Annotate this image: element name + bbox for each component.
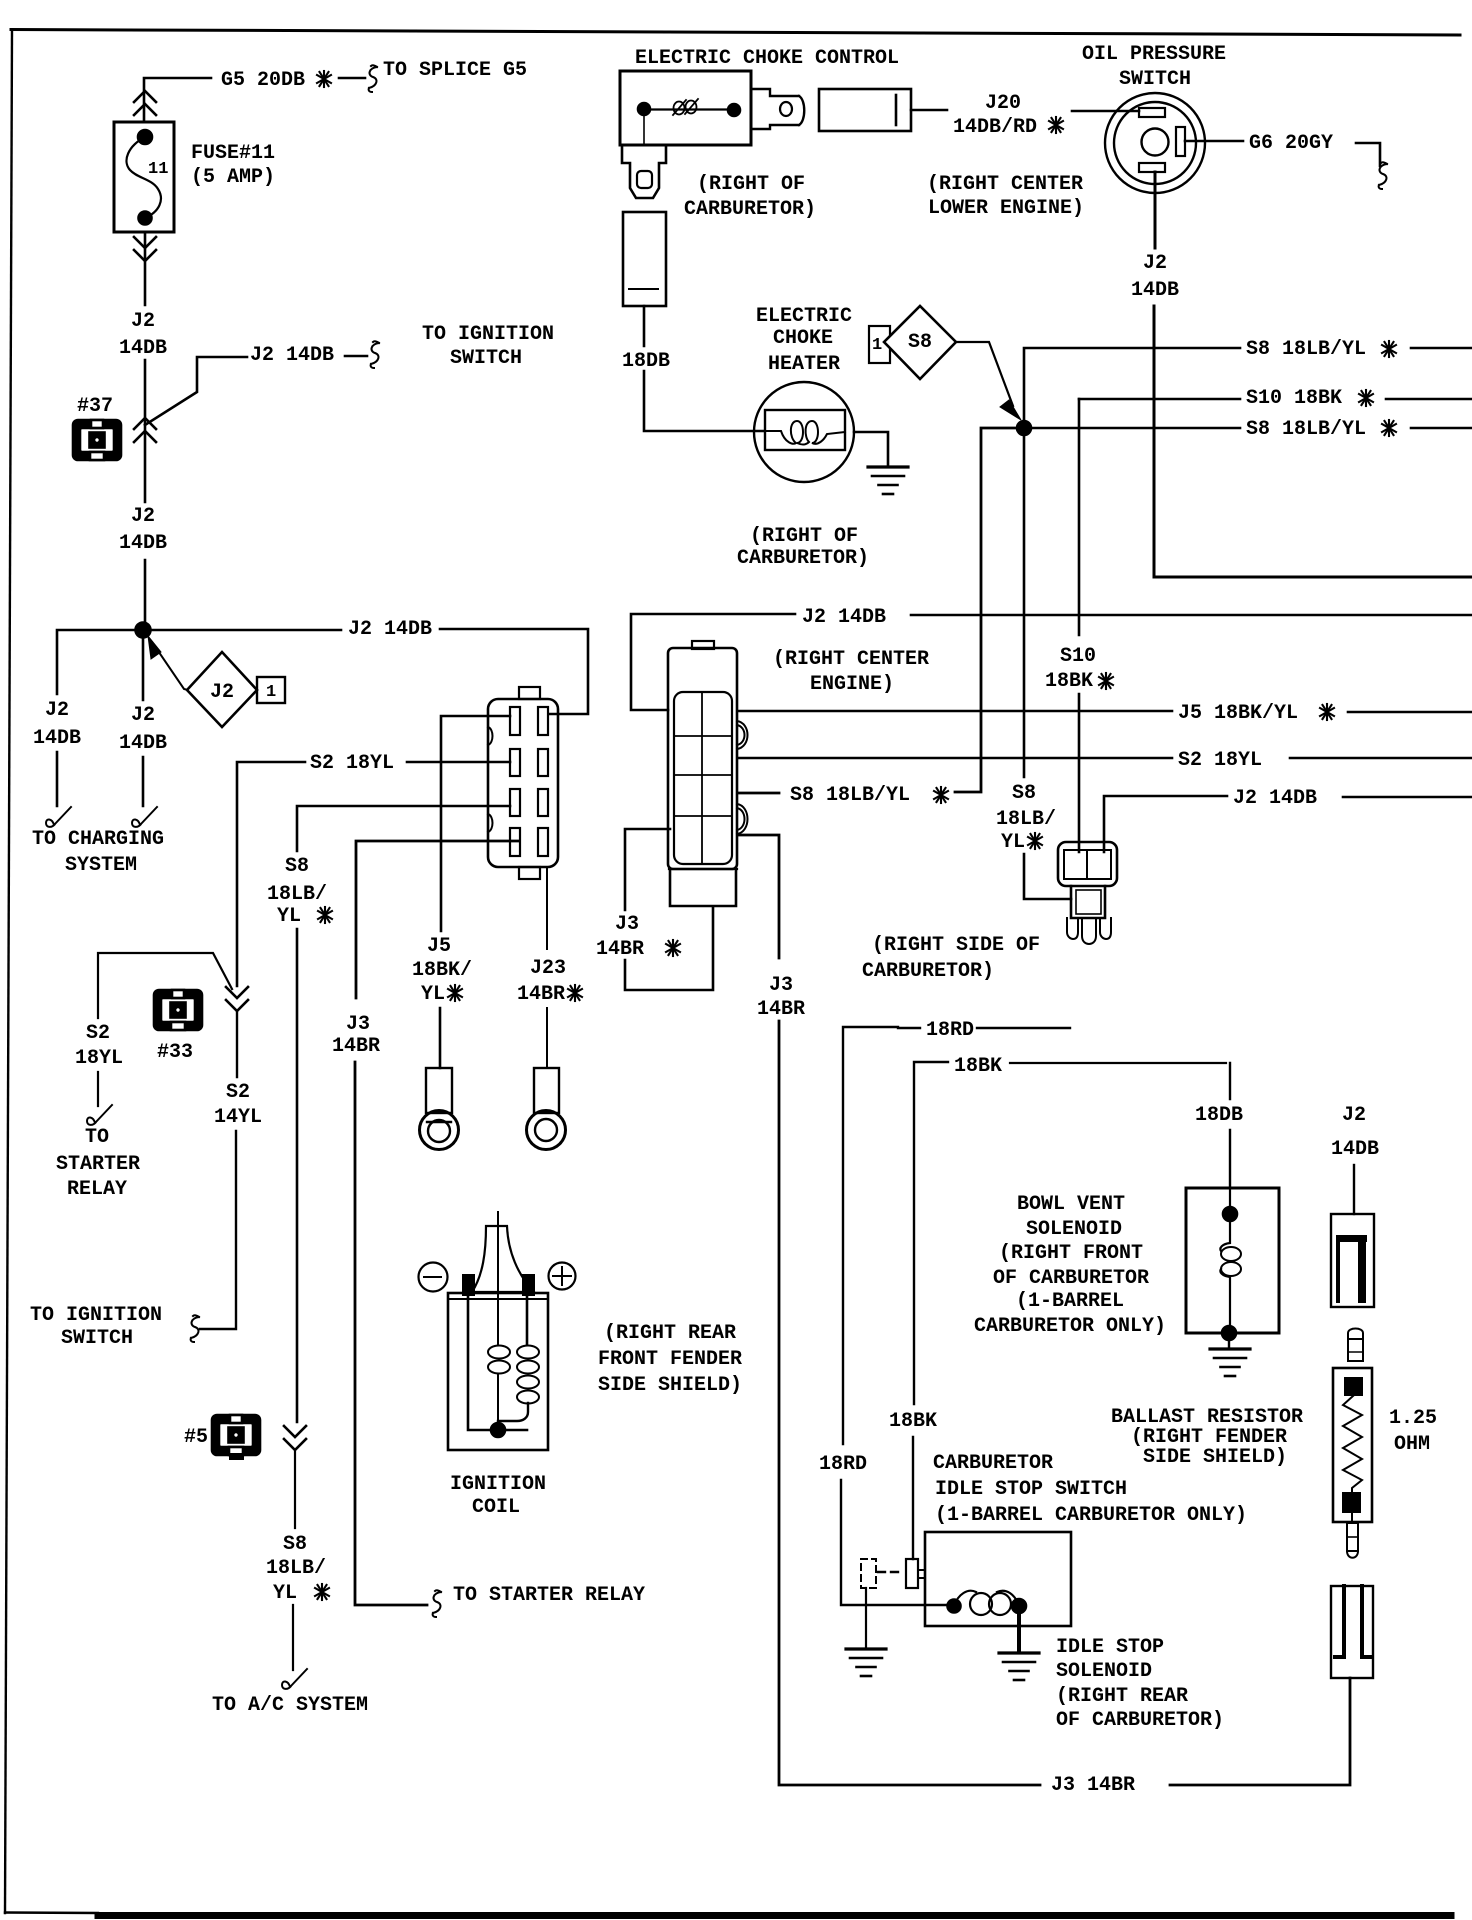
border frame top bbox=[11, 30, 1460, 36]
ground from idle stop solenoid bbox=[1017, 1606, 1021, 1652]
svg-text:(RIGHT OF: (RIGHT OF bbox=[750, 525, 858, 548]
svg-text:YL: YL bbox=[1001, 831, 1025, 854]
svg-text:#37: #37 bbox=[77, 395, 113, 418]
choke control lower connector shell bbox=[623, 212, 666, 306]
connector C bowl vent prongs bbox=[1067, 918, 1078, 939]
svg-text:1: 1 bbox=[872, 336, 882, 355]
wire label S8 18LB/YL lower bbox=[266, 1533, 326, 1605]
svg-text:(RIGHT FRONT: (RIGHT FRONT bbox=[999, 1242, 1143, 1265]
svg-text:RELAY: RELAY bbox=[67, 1178, 127, 1201]
svg-text:1.25: 1.25 bbox=[1389, 1407, 1437, 1430]
wire label J2 14DB right column bbox=[1331, 1104, 1379, 1161]
wire label J3 14BR loop bbox=[596, 913, 644, 961]
svg-text:18RD: 18RD bbox=[819, 1453, 867, 1476]
ground from dashed connector bbox=[865, 1588, 867, 1648]
svg-text:J2 14DB: J2 14DB bbox=[1233, 787, 1317, 810]
svg-text:S10: S10 bbox=[1060, 645, 1096, 668]
svg-text:14BR: 14BR bbox=[757, 998, 805, 1021]
wire break to ignition switch lower bbox=[191, 1315, 199, 1342]
svg-text:14DB: 14DB bbox=[33, 727, 81, 750]
svg-text:18BK: 18BK bbox=[1045, 670, 1093, 693]
svg-text:SOLENOID: SOLENOID bbox=[1056, 1660, 1152, 1683]
svg-text:S8: S8 bbox=[908, 331, 932, 354]
svg-text:J3 14BR: J3 14BR bbox=[1051, 1774, 1135, 1797]
svg-text:TO: TO bbox=[85, 1126, 109, 1149]
svg-text:ELECTRIC: ELECTRIC bbox=[756, 305, 852, 328]
svg-text:(5 AMP): (5 AMP) bbox=[191, 166, 275, 189]
chevron pair down on S8 wire at #5 bbox=[284, 1426, 306, 1450]
svg-text:14BR: 14BR bbox=[332, 1035, 380, 1058]
svg-text:18YL: 18YL bbox=[75, 1047, 123, 1070]
wire label J2 14DB run bbox=[348, 618, 432, 641]
wire G5 20DB from fuse top bbox=[144, 78, 365, 122]
svg-text:CARBURETOR): CARBURETOR) bbox=[737, 547, 869, 570]
wire S8 vertical mid column bbox=[1024, 435, 1071, 899]
electric choke heater circle bbox=[754, 382, 854, 482]
svg-text:CARBURETOR): CARBURETOR) bbox=[862, 960, 994, 983]
splice arrow into junction bbox=[152, 642, 188, 690]
svg-text:14DB: 14DB bbox=[1331, 1138, 1379, 1161]
wire S2 14YL down to ignition switch bbox=[200, 1011, 237, 1329]
ballast terminal bulb bbox=[1348, 1329, 1363, 1340]
svg-text:18BK/: 18BK/ bbox=[412, 959, 472, 982]
connector C bowl vent 2-way upper shell bbox=[1058, 842, 1117, 886]
svg-text:S2: S2 bbox=[226, 1081, 250, 1104]
svg-text:J3: J3 bbox=[615, 913, 639, 936]
wire 18RD bbox=[841, 1027, 1070, 1605]
svg-text:J2: J2 bbox=[1342, 1104, 1366, 1127]
svg-text:TO A/C SYSTEM: TO A/C SYSTEM bbox=[212, 1694, 368, 1717]
wire label J2 14DB branch bbox=[250, 344, 334, 367]
wire pin R4 J23 column bbox=[546, 867, 548, 1068]
wire J2 14DB left branch to charging system bbox=[57, 630, 143, 806]
wire J3 14BR right column bbox=[738, 835, 1350, 1785]
wire S10 vertical bbox=[1078, 399, 1081, 852]
connector #33 label bbox=[157, 1041, 193, 1064]
wire label J2 14DB middle bbox=[119, 704, 167, 755]
svg-text:COIL: COIL bbox=[472, 1496, 520, 1519]
wire pin L2 S2 18YL bbox=[237, 762, 510, 986]
svg-text:18DB: 18DB bbox=[1195, 1104, 1243, 1127]
svg-text:S8 18LB/YL: S8 18LB/YL bbox=[1246, 418, 1366, 441]
component label FUSE#11 (5 AMP) bbox=[191, 142, 275, 189]
oil pressure switch terminals bbox=[1139, 108, 1165, 117]
bowl vent solenoid box bbox=[1186, 1188, 1279, 1333]
wire label J3 14BR bottom run bbox=[1051, 1774, 1135, 1797]
bowl vent solenoid coil bbox=[1220, 1188, 1230, 1327]
location label RIGHT SIDE OF CARBURETOR bbox=[862, 934, 1040, 983]
wire label 18RD lower bbox=[819, 1453, 867, 1476]
node label TO CHARGING SYSTEM bbox=[32, 828, 164, 877]
border frame left bbox=[5, 30, 12, 1914]
svg-text:J2: J2 bbox=[131, 505, 155, 528]
svg-text:(1-BARREL CARBURETOR ONLY): (1-BARREL CARBURETOR ONLY) bbox=[935, 1504, 1247, 1527]
svg-text:OF CARBURETOR: OF CARBURETOR bbox=[993, 1267, 1149, 1290]
svg-text:TO STARTER RELAY: TO STARTER RELAY bbox=[453, 1584, 645, 1607]
svg-text:ENGINE): ENGINE) bbox=[810, 673, 894, 696]
idle stop switch box bbox=[925, 1532, 1071, 1626]
svg-text:(1-BARREL: (1-BARREL bbox=[1016, 1290, 1124, 1313]
svg-text:J2: J2 bbox=[45, 699, 69, 722]
ignition coil positive terminal bbox=[522, 1274, 535, 1296]
wire J2 14DB fuse to junction bbox=[144, 232, 147, 623]
ignition coil plus mark bbox=[549, 1263, 576, 1290]
wire label 18DB bbox=[622, 350, 670, 373]
wire J5 18BK/YL row bbox=[738, 711, 1472, 712]
wire branch to ignition switch bbox=[145, 356, 367, 425]
svg-text:FRONT FENDER: FRONT FENDER bbox=[598, 1348, 742, 1371]
connector C ballast lower half bbox=[1331, 1586, 1373, 1678]
fuse F11 body bbox=[114, 122, 174, 232]
svg-text:ELECTRIC CHOKE CONTROL: ELECTRIC CHOKE CONTROL bbox=[635, 47, 899, 70]
wire label J2 14DB lower bbox=[119, 505, 167, 555]
idle stop solenoid coil bbox=[948, 1600, 961, 1613]
ballast resistor body bbox=[1333, 1368, 1372, 1522]
connector #33 symbol bbox=[154, 990, 202, 1030]
component label ELECTRIC CHOKE HEATER bbox=[756, 305, 852, 376]
wire label S2 18YL bbox=[310, 752, 394, 775]
connector C carb 8-way body bbox=[488, 699, 558, 867]
svg-text:18DB: 18DB bbox=[622, 350, 670, 373]
svg-text:J2 14DB: J2 14DB bbox=[250, 344, 334, 367]
heater coil bbox=[765, 421, 845, 445]
svg-text:SOLENOID: SOLENOID bbox=[1026, 1218, 1122, 1241]
connector C engine inner cavity grid bbox=[674, 692, 732, 864]
svg-text:18LB/: 18LB/ bbox=[266, 1557, 326, 1580]
wire label 18RD upper bbox=[926, 1019, 974, 1042]
wire label J2 14DB upper bbox=[119, 310, 167, 360]
ignition coil HT center lead bbox=[497, 1212, 499, 1424]
wire pin L4 J3 column bbox=[355, 841, 519, 1605]
ground at choke heater bbox=[868, 467, 908, 494]
wire label G6 20GY bbox=[1249, 132, 1333, 155]
svg-text:J2: J2 bbox=[210, 681, 234, 704]
fuse F11 element bbox=[126, 137, 160, 218]
splice diamond S8 bbox=[884, 306, 956, 379]
svg-text:S8 18LB/YL: S8 18LB/YL bbox=[790, 784, 910, 807]
connector C carb pin slots bbox=[510, 707, 548, 856]
svg-text:CHOKE: CHOKE bbox=[773, 327, 833, 350]
svg-text:TO IGNITION: TO IGNITION bbox=[422, 323, 554, 346]
wire 18BK bbox=[913, 1062, 948, 1559]
chevron pair down on S2 wire bbox=[226, 987, 248, 1011]
location label RIGHT CENTER LOWER ENGINE bbox=[927, 173, 1084, 220]
svg-text:STARTER: STARTER bbox=[56, 1153, 140, 1176]
connector #5 symbol bbox=[212, 1415, 260, 1455]
node label TO STARTER RELAY bbox=[56, 1126, 140, 1201]
svg-text:IGNITION: IGNITION bbox=[450, 1473, 546, 1496]
wire label S8 18LB/YL at connector bbox=[790, 784, 910, 807]
node label TO A/C SYSTEM bbox=[212, 1694, 368, 1717]
svg-text:J2: J2 bbox=[1143, 252, 1167, 275]
fuse value label 11 bbox=[148, 160, 168, 179]
svg-text:S2 18YL: S2 18YL bbox=[1178, 749, 1262, 772]
dashed mating connector bbox=[861, 1559, 876, 1588]
wire label 18DB bbox=[1195, 1104, 1243, 1127]
ignition coil minus mark bbox=[419, 1263, 448, 1292]
wire J2 14DB long horizontal run bbox=[631, 614, 1472, 710]
connector C bowl vent neck bbox=[1071, 886, 1105, 918]
wire S8 18LB/YL upper row bbox=[1024, 348, 1472, 421]
svg-text:SWITCH: SWITCH bbox=[450, 347, 522, 370]
connector #37 symbol bbox=[73, 420, 121, 460]
choke control internal contacts bbox=[650, 108, 728, 110]
connector C ballast upper half bbox=[1331, 1214, 1374, 1307]
wire label 18BK upper bbox=[954, 1055, 1002, 1078]
wire 18DB from choke connector bbox=[644, 306, 764, 431]
location label RIGHT REAR FRONT FENDER SIDE SHIELD bbox=[598, 1322, 742, 1397]
wire label J3 14BR right column bbox=[757, 974, 805, 1021]
ground at bowl vent solenoid bbox=[1228, 1340, 1230, 1348]
svg-text:J23: J23 bbox=[530, 957, 566, 980]
svg-text:14BR: 14BR bbox=[596, 938, 644, 961]
wire S2 18YL row bbox=[738, 757, 1472, 760]
svg-text:(RIGHT CENTER: (RIGHT CENTER bbox=[927, 173, 1083, 196]
wire label 18BK lower bbox=[889, 1410, 937, 1433]
wire label J2 14DB oil switch bbox=[1131, 252, 1179, 302]
wire heater to ground bbox=[854, 432, 888, 466]
svg-text:YL: YL bbox=[421, 983, 445, 1006]
ignition coil tower bbox=[472, 1226, 534, 1292]
connector #5 label bbox=[184, 1426, 208, 1449]
svg-text:BOWL VENT: BOWL VENT bbox=[1017, 1193, 1125, 1216]
wire break to starter relay right bbox=[433, 1590, 441, 1617]
svg-text:FUSE#11: FUSE#11 bbox=[191, 142, 275, 165]
svg-text:J2 14DB: J2 14DB bbox=[348, 618, 432, 641]
idle stop switch terminal bbox=[906, 1559, 918, 1588]
svg-text:CARBURETOR ONLY): CARBURETOR ONLY) bbox=[974, 1315, 1166, 1338]
svg-text:J2: J2 bbox=[131, 310, 155, 333]
svg-text:S2: S2 bbox=[86, 1022, 110, 1045]
svg-text:OHM: OHM bbox=[1394, 1433, 1430, 1456]
component label OIL PRESSURE SWITCH bbox=[1082, 43, 1226, 91]
wire S8 18LB/YL lower row bbox=[1031, 427, 1472, 430]
wire G6 20GY bbox=[1185, 141, 1380, 166]
wire label S2 18YL branch bbox=[75, 1022, 123, 1070]
ballast resistor element zigzag bbox=[1343, 1396, 1362, 1492]
svg-text:(RIGHT SIDE OF: (RIGHT SIDE OF bbox=[872, 934, 1040, 957]
wire S8 branch left of junction down to connector bbox=[738, 428, 1017, 793]
svg-text:J3: J3 bbox=[346, 1013, 370, 1036]
wire label J23 14BR bbox=[517, 957, 566, 1006]
svg-text:SIDE SHIELD): SIDE SHIELD) bbox=[598, 1374, 742, 1397]
oil pressure switch body circles bbox=[1105, 93, 1205, 193]
arrow to charging system left bbox=[46, 807, 71, 827]
splice asterisk for G5 bbox=[317, 71, 331, 87]
splice S8 index box 1 bbox=[869, 326, 890, 363]
node label TO SPLICE G5 bbox=[383, 59, 527, 82]
svg-text:(RIGHT CENTER: (RIGHT CENTER bbox=[773, 648, 929, 671]
wire break to splice G5 bbox=[369, 65, 377, 92]
wire S10 18BK row bbox=[1079, 398, 1472, 401]
svg-text:J20: J20 bbox=[985, 92, 1021, 115]
wire label S2 14YL bbox=[214, 1081, 262, 1129]
location label RIGHT CENTER ENGINE bbox=[773, 648, 929, 696]
svg-text:TO CHARGING: TO CHARGING bbox=[32, 828, 164, 851]
component label BALLAST RESISTOR bbox=[1111, 1406, 1303, 1469]
svg-text:18BK: 18BK bbox=[889, 1410, 937, 1433]
node label TO IGNITION SWITCH lower bbox=[30, 1304, 162, 1350]
choke control lower lug terminal bbox=[622, 145, 666, 198]
wire pin L1 to J5 column bbox=[440, 716, 510, 1068]
svg-text:CARBURETOR: CARBURETOR bbox=[933, 1452, 1053, 1475]
svg-text:14DB: 14DB bbox=[119, 732, 167, 755]
wire break G6 bbox=[1379, 162, 1387, 189]
node label G5 20DB bbox=[221, 69, 305, 92]
svg-text:(RIGHT REAR: (RIGHT REAR bbox=[604, 1322, 736, 1345]
wire S8 18LB/YL to A/C system bbox=[293, 1450, 295, 1670]
wire label J20 14DB/RD bbox=[953, 92, 1037, 139]
ring terminal J5 bbox=[426, 1068, 452, 1113]
wire S2 18YL branch to starter relay bbox=[98, 953, 232, 1106]
wire J3 loop connector bottom bbox=[625, 829, 713, 990]
wire J2 14DB stub to connector bbox=[1353, 1165, 1355, 1214]
svg-text:S8: S8 bbox=[283, 1533, 307, 1556]
svg-text:18LB/: 18LB/ bbox=[996, 808, 1056, 831]
wire J2 14DB right run to connector bbox=[151, 629, 588, 714]
wire label S8 18LB/YL upper left column bbox=[267, 855, 327, 928]
junction dot J2 splice bbox=[136, 623, 151, 638]
ignition coil secondary winding bbox=[526, 1297, 529, 1345]
wire label J3 14BR left column bbox=[332, 1013, 380, 1058]
svg-text:14DB: 14DB bbox=[119, 532, 167, 555]
svg-text:HEATER: HEATER bbox=[768, 353, 840, 376]
chevron pair down below fuse bbox=[134, 237, 156, 261]
svg-text:IDLE STOP: IDLE STOP bbox=[1056, 1636, 1164, 1659]
node label TO STARTER RELAY right bbox=[453, 1584, 645, 1607]
ballast resistor tip terminal bbox=[1351, 1513, 1353, 1523]
svg-text:S8: S8 bbox=[1012, 782, 1036, 805]
svg-text:S2 18YL: S2 18YL bbox=[310, 752, 394, 775]
ignition coil negative terminal bbox=[462, 1274, 475, 1296]
splice diamond J2 bbox=[187, 652, 257, 727]
svg-text:G6 20GY: G6 20GY bbox=[1249, 132, 1333, 155]
electric choke control body bbox=[620, 71, 751, 145]
component label ELECTRIC CHOKE CONTROL bbox=[635, 47, 899, 70]
heater element box bbox=[765, 410, 845, 450]
svg-text:LOWER ENGINE): LOWER ENGINE) bbox=[928, 197, 1084, 220]
arrow to starter relay bbox=[87, 1105, 112, 1125]
component label BOWL VENT SOLENOID bbox=[974, 1193, 1166, 1338]
choke control coil symbol bbox=[673, 99, 698, 115]
wire J2 14DB middle branch down bbox=[142, 638, 145, 806]
svg-text:J3: J3 bbox=[769, 974, 793, 997]
svg-text:J2: J2 bbox=[131, 704, 155, 727]
component label IDLE STOP SOLENOID bbox=[1056, 1636, 1224, 1732]
connector C engine right lock bumps bbox=[737, 721, 748, 749]
chevron pair up above fuse bbox=[134, 91, 156, 115]
svg-text:(RIGHT OF: (RIGHT OF bbox=[697, 173, 805, 196]
svg-text:S8 18LB/YL: S8 18LB/YL bbox=[1246, 338, 1366, 361]
chevron pair up at #37 bbox=[134, 418, 156, 442]
location label RIGHT OF CARBURETOR bbox=[684, 173, 816, 221]
svg-text:(RIGHT REAR: (RIGHT REAR bbox=[1056, 1685, 1188, 1708]
svg-text:OF CARBURETOR): OF CARBURETOR) bbox=[1056, 1709, 1224, 1732]
svg-text:YL: YL bbox=[277, 905, 301, 928]
ignition coil common junction dot bbox=[491, 1423, 505, 1437]
choke control right terminal bbox=[751, 89, 804, 129]
svg-text:14DB: 14DB bbox=[119, 337, 167, 360]
ignition coil case bbox=[448, 1293, 548, 1450]
svg-text:#33: #33 bbox=[157, 1041, 193, 1064]
svg-text:11: 11 bbox=[148, 160, 168, 179]
svg-text:SWITCH: SWITCH bbox=[61, 1327, 133, 1350]
svg-text:18LB/: 18LB/ bbox=[267, 883, 327, 906]
wire from S8 diamond to junction bbox=[956, 342, 1013, 406]
svg-text:14BR: 14BR bbox=[517, 983, 565, 1006]
wire label S10 18BK vertical bbox=[1045, 645, 1096, 693]
svg-text:G5 20DB: G5 20DB bbox=[221, 69, 305, 92]
svg-text:S8: S8 bbox=[285, 855, 309, 878]
svg-text:TO SPLICE G5: TO SPLICE G5 bbox=[383, 59, 527, 82]
wire pin L3 S8 column bbox=[297, 806, 510, 1422]
location label RIGHT OF CARBURETOR heater bbox=[737, 525, 869, 570]
svg-text:S10 18BK: S10 18BK bbox=[1246, 387, 1342, 410]
svg-text:SWITCH: SWITCH bbox=[1119, 68, 1191, 91]
svg-text:IDLE STOP SWITCH: IDLE STOP SWITCH bbox=[935, 1478, 1127, 1501]
component label IGNITION COIL bbox=[450, 1473, 546, 1519]
wire J2 14DB from oil switch bbox=[1154, 172, 1472, 577]
wire J20 14DB/RD bbox=[911, 110, 1139, 111]
connector #37 label bbox=[77, 395, 113, 418]
wire label S8 18LB/YL mid column bbox=[996, 782, 1056, 854]
svg-text:CARBURETOR): CARBURETOR) bbox=[684, 198, 816, 221]
splice diamond J2 index box 1 bbox=[257, 677, 285, 703]
svg-text:14DB: 14DB bbox=[1131, 279, 1179, 302]
svg-text:18RD: 18RD bbox=[926, 1019, 974, 1042]
svg-text:14DB/RD: 14DB/RD bbox=[953, 116, 1037, 139]
svg-text:18BK: 18BK bbox=[954, 1055, 1002, 1078]
svg-text:J5 18BK/YL: J5 18BK/YL bbox=[1178, 702, 1298, 725]
wire break to ignition switch bbox=[371, 341, 379, 368]
wire 18DB to bowl vent solenoid bbox=[1229, 1063, 1231, 1188]
value label 1.25 OHM bbox=[1389, 1407, 1437, 1456]
svg-text:1: 1 bbox=[266, 683, 276, 702]
arrow to charging system right bbox=[132, 807, 157, 827]
connector C carb left profile notches bbox=[488, 727, 493, 832]
svg-text:J2 14DB: J2 14DB bbox=[802, 606, 886, 629]
svg-text:SIDE SHIELD): SIDE SHIELD) bbox=[1143, 1446, 1287, 1469]
svg-text:SYSTEM: SYSTEM bbox=[65, 854, 137, 877]
wire label J2 14DB long run bbox=[802, 606, 886, 629]
svg-text:TO IGNITION: TO IGNITION bbox=[30, 1304, 162, 1327]
arrow to A/C system bbox=[282, 1669, 307, 1689]
ring terminal J23 bbox=[534, 1068, 559, 1113]
component label CARBURETOR IDLE STOP SWITCH bbox=[933, 1452, 1247, 1527]
svg-text:OIL PRESSURE: OIL PRESSURE bbox=[1082, 43, 1226, 66]
connector C engine 8-way body bbox=[668, 648, 737, 869]
junction dot S8 bbox=[1017, 421, 1031, 435]
wire label J2 14DB left bbox=[33, 699, 81, 750]
svg-text:#5: #5 bbox=[184, 1426, 208, 1449]
border frame bottom bbox=[5, 1911, 98, 1914]
svg-text:14YL: 14YL bbox=[214, 1106, 262, 1129]
svg-text:J5: J5 bbox=[427, 935, 451, 958]
wire label J5 18BK/YL column bbox=[412, 935, 472, 1006]
node label TO IGNITION SWITCH bbox=[422, 323, 554, 370]
choke control mating connector bbox=[819, 89, 911, 131]
wire J2 14DB right row bbox=[1104, 796, 1472, 852]
ignition coil primary winding bbox=[468, 1297, 527, 1430]
svg-text:YL: YL bbox=[273, 1582, 297, 1605]
